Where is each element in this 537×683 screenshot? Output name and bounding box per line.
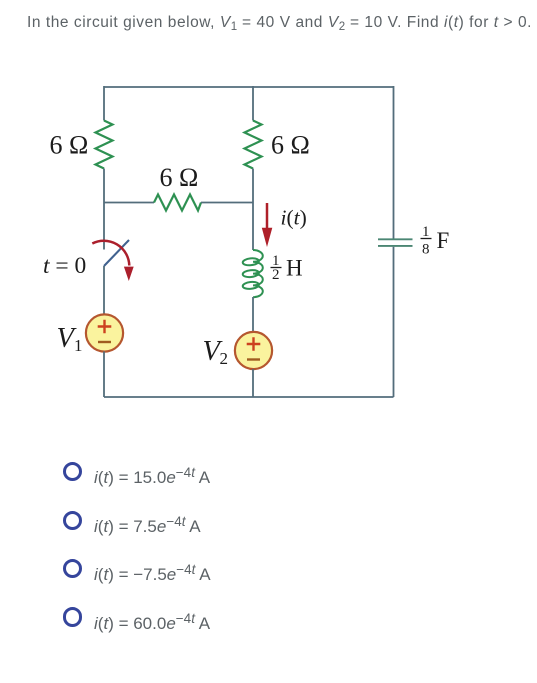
wire right branch upper <box>393 86 395 239</box>
switch blade (t=0) <box>104 240 129 266</box>
wire left branch upper stub <box>103 86 105 121</box>
svg-text:6 Ω: 6 Ω <box>160 163 199 192</box>
capacitor C1 1/8 F <box>378 239 413 246</box>
svg-text:H: H <box>286 256 303 281</box>
svg-text:8: 8 <box>422 242 430 258</box>
svg-text:i(t): i(t) <box>281 206 307 230</box>
wire left branch between switch and V1 <box>103 266 105 315</box>
svg-text:F: F <box>437 228 450 253</box>
switch arc arrowhead <box>124 267 134 281</box>
resistor R3 6 ohm horizontal <box>154 195 201 211</box>
svg-text:1: 1 <box>422 224 430 240</box>
wire left branch between R1 and switch <box>103 169 105 250</box>
svg-text:1: 1 <box>74 336 83 355</box>
switch closing arc <box>92 241 129 266</box>
resistor R1 6 ohm left branch <box>96 121 113 169</box>
svg-text:t = 0: t = 0 <box>43 253 86 279</box>
svg-text:2: 2 <box>272 267 280 283</box>
label 1/8 F (C1) <box>421 224 450 258</box>
wire bottom bus <box>104 396 394 398</box>
current arrow i(t) <box>262 203 273 247</box>
svg-text:2: 2 <box>220 349 229 368</box>
wire middle branch upper stub <box>252 86 254 121</box>
wire horizontal from left branch to R3 <box>104 202 154 204</box>
voltage source V1 <box>86 314 123 351</box>
svg-text:6 Ω: 6 Ω <box>271 131 310 160</box>
svg-text:6 Ω: 6 Ω <box>50 131 89 160</box>
wire left branch below V1 <box>103 352 105 398</box>
wire middle branch between R2 and junction <box>252 169 254 203</box>
wire middle branch between inductor and V2 <box>252 297 254 332</box>
wire right branch lower <box>393 247 395 397</box>
inductor L1 1/2 H <box>242 250 262 297</box>
wire top bus <box>104 86 394 88</box>
wire horizontal from R3 to middle branch <box>201 202 253 204</box>
resistor R2 6 ohm middle branch <box>245 121 262 169</box>
label 1/2 H (L1) <box>271 253 303 283</box>
voltage source V2 <box>235 332 272 369</box>
wire middle branch between junction and inductor <box>252 203 254 251</box>
wire middle branch below V2 <box>252 369 254 397</box>
